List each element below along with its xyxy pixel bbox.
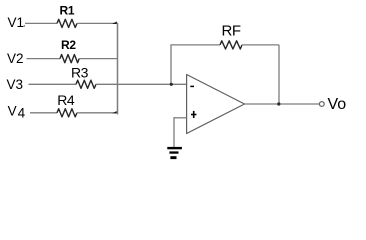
resistor R3 bbox=[76, 80, 96, 88]
wire V4 lead bbox=[30, 112, 57, 114]
wire V2 lead bbox=[27, 58, 61, 60]
wire summing bus (vertical) bbox=[117, 23, 119, 115]
junction dot at inverting input node bbox=[170, 83, 173, 86]
node V4 (input label) bbox=[8, 103, 26, 120]
ground bbox=[167, 147, 182, 159]
svg-text:R2: R2 bbox=[61, 38, 76, 52]
svg-text:RF: RF bbox=[222, 23, 241, 40]
svg-text:4: 4 bbox=[18, 106, 26, 121]
svg-text:V3: V3 bbox=[7, 77, 24, 92]
svg-text:Vo: Vo bbox=[328, 96, 347, 113]
junction tick V1-bus corner bbox=[112, 21, 117, 24]
wire ground stem bbox=[173, 117, 175, 147]
op-amp minus pin mark bbox=[190, 85, 194, 87]
wire R3 to op-amp inverting input bbox=[96, 83, 187, 85]
resistor RF bbox=[220, 41, 242, 49]
wire RF right vertical to output bbox=[278, 45, 280, 104]
wire RF top left segment bbox=[170, 44, 220, 46]
resistor R4 bbox=[57, 109, 77, 117]
op-amp plus pin mark bbox=[191, 111, 196, 118]
resistor R1 bbox=[57, 19, 77, 27]
node V1 (input label) bbox=[8, 15, 25, 30]
wire non-inverting input bbox=[174, 117, 187, 119]
svg-text:V1: V1 bbox=[8, 15, 25, 30]
wire RF left vertical bbox=[170, 45, 172, 84]
wire V1 lead bbox=[25, 22, 57, 24]
svg-text:V2: V2 bbox=[7, 51, 24, 66]
terminal Vo (open circle) bbox=[319, 102, 324, 107]
wire V3 lead bbox=[29, 83, 77, 85]
wire R2 to bus bbox=[79, 58, 118, 60]
wire output bbox=[245, 103, 320, 105]
junction tick V4-bus corner bbox=[112, 111, 117, 113]
wire RF top right segment bbox=[242, 44, 279, 46]
svg-text:V: V bbox=[8, 103, 17, 118]
svg-text:R1: R1 bbox=[60, 3, 75, 17]
junction dot at output/feedback node bbox=[277, 102, 280, 105]
wire R1 to bus bbox=[77, 22, 118, 24]
wire R4 to bus bbox=[77, 112, 118, 114]
op-amp U1 triangle bbox=[187, 75, 245, 134]
svg-text:R3: R3 bbox=[71, 65, 89, 81]
svg-text:R4: R4 bbox=[57, 92, 75, 108]
resistor R2 bbox=[60, 55, 79, 63]
